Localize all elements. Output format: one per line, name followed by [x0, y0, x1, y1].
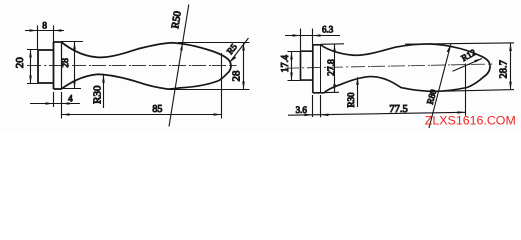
- dim 8: extension lines: [38, 26, 54, 51]
- body face line: [53, 42, 55, 89]
- dim 4: arrows (outside): [46, 102, 54, 105]
- svg-text:27.8: 27.8: [327, 59, 337, 76]
- centerline (axis): [27, 65, 237, 67]
- leader R30 (left): [103, 75, 105, 108]
- svg-text:85: 85: [152, 104, 162, 115]
- svg-text:77.5: 77.5: [389, 104, 407, 115]
- dim 28 left: arrows: [73, 42, 76, 50]
- dim 6.3: extension lines: [301, 29, 313, 52]
- svg-text:17.4: 17.4: [280, 55, 291, 72]
- dim 27.8: arrows: [333, 44, 336, 52]
- leader R12: [453, 59, 483, 72]
- dim 17.4: arrows: [290, 52, 293, 60]
- body face line: [312, 45, 314, 93]
- shared arrow at collar-end ext: [321, 114, 329, 117]
- leader R80: [429, 44, 451, 128]
- svg-text:R50: R50: [170, 10, 184, 29]
- dim 8: arrows (outside, pointing inward): [30, 29, 38, 32]
- svg-text:3.6: 3.6: [296, 105, 308, 115]
- dim 28 right (belly): extension lines: [168, 43, 250, 90]
- dim 3.6/77.5: dimension line (tilted): [288, 112, 466, 115]
- svg-text:R5: R5: [225, 41, 240, 56]
- svg-text:R30: R30: [92, 85, 104, 104]
- dim 28.7: arrows: [509, 43, 512, 51]
- dim 28 left (collar): extension lines: [62, 42, 84, 89]
- dim 28.7: dimension line: [510, 43, 512, 90]
- dim 85: arrows: [62, 113, 70, 116]
- dim 4: dimension line: [30, 103, 80, 105]
- collar end line: [320, 45, 322, 93]
- leader R30 (right): [357, 77, 359, 107]
- dim 27.8: extension lines: [321, 44, 344, 93]
- dim 3.6 / 77.5: extension lines: [313, 64, 466, 118]
- cap rectangle: [301, 51, 313, 80]
- handle outline: [313, 44, 490, 93]
- svg-text:28: 28: [61, 58, 71, 68]
- dim 8: dimension line: [25, 30, 64, 32]
- svg-text:6.3: 6.3: [322, 25, 334, 35]
- leader R50: [169, 5, 189, 127]
- dim 17.4: dimension line: [291, 52, 293, 81]
- handle outline: [54, 42, 232, 89]
- dim 77.5: right arrow: [458, 111, 466, 114]
- dim 28.7: extension lines: [405, 43, 514, 92]
- svg-text:4: 4: [68, 93, 73, 103]
- dim 28 right: arrows: [242, 43, 245, 51]
- dim 20: dimension line: [30, 50, 32, 84]
- centerline (axis, tilted): [285, 64, 493, 68]
- svg-text:28: 28: [231, 70, 243, 82]
- svg-text:20: 20: [14, 57, 26, 68]
- leader R5: [230, 38, 249, 63]
- dim 85: dimension line: [62, 114, 222, 116]
- svg-text:ZLXS1616.COM: ZLXS1616.COM: [425, 114, 516, 128]
- dim 4: extension lines: [54, 92, 62, 119]
- dim 20: arrows: [29, 50, 32, 58]
- dim 28 left: dimension line: [74, 42, 76, 89]
- dim 85: extension line right: [221, 53, 223, 119]
- dim 3.6: left arrow (outside): [305, 114, 313, 117]
- collar end line: [61, 42, 63, 89]
- svg-text:8: 8: [42, 21, 47, 31]
- dim 6.3: dimension line: [285, 35, 340, 37]
- dim 17.4: extension lines: [288, 52, 301, 81]
- svg-text:28.7: 28.7: [498, 60, 509, 78]
- dim 28 right: dimension line: [243, 43, 245, 90]
- dim 6.3: arrows (outside): [293, 34, 301, 37]
- cap (butt) rectangle: [38, 50, 54, 83]
- svg-text:R30: R30: [346, 92, 356, 108]
- dim 27.8: dimension line: [334, 44, 336, 92]
- dim 20: extension lines: [27, 50, 38, 84]
